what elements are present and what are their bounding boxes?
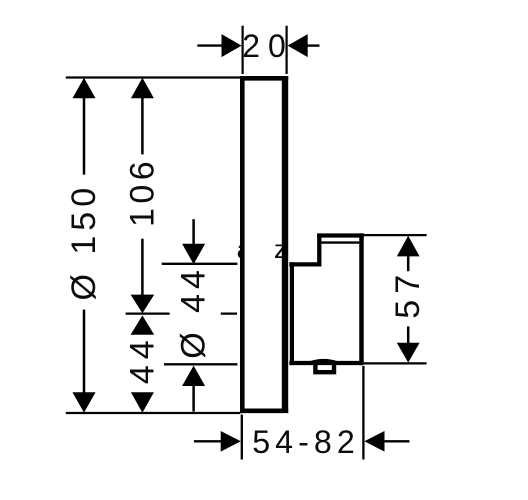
valve body top edge — [289, 262, 321, 266]
body top extension line (left of plate) — [162, 263, 238, 265]
dim 57 bottom extension line — [364, 362, 427, 364]
svg-text:20: 20 — [242, 28, 294, 64]
dim 150 label — [65, 183, 103, 301]
dim 57 line lower segment — [407, 326, 410, 343]
front plate top edge — [240, 76, 288, 81]
dim 54-82 left extension line — [241, 415, 243, 460]
dim O44 top tail — [192, 219, 195, 246]
dim O44 bottom tail — [192, 385, 195, 412]
dim 20 right arrow — [288, 34, 308, 57]
body bottom extension line (left of plate) — [164, 363, 237, 365]
dim 150 line upper segment — [83, 97, 86, 175]
dim 44 chain bottom arrow — [131, 392, 154, 412]
front plate bottom edge — [240, 408, 288, 413]
dim 57 line upper segment — [407, 255, 410, 271]
dim O44 label — [175, 265, 213, 359]
dim 57 top arrow — [397, 236, 420, 257]
cartridge cap left edge — [317, 233, 321, 266]
dim O44 bottom arrow (points up) — [182, 366, 205, 386]
dim 150 top arrow — [73, 78, 96, 98]
dim 106 line upper segment — [141, 97, 144, 154]
valve body left edge — [290, 262, 294, 365]
cartridge cap top edge — [317, 233, 363, 237]
dim 20 right extension line — [286, 26, 288, 74]
dim 54-82 left arrow — [194, 440, 223, 442]
svg-text:Ø 44: Ø 44 — [175, 265, 213, 359]
dim 44 chain top arrow (bowtie lower) — [131, 315, 155, 334]
handle center extension line segments — [126, 312, 170, 314]
valve body bottom edge — [289, 361, 363, 365]
svg-text:Ø 150: Ø 150 — [65, 183, 103, 301]
dim 54-82 right extension line — [362, 366, 364, 460]
front plate right edge — [282, 76, 288, 413]
bottom extension line (plate bottom, left) — [66, 412, 241, 414]
dim 20 left arrow — [197, 44, 224, 46]
dim 57 top extension line — [364, 234, 427, 236]
dim 150 bottom arrow — [73, 392, 96, 412]
svg-text:54-82: 54-82 — [252, 424, 360, 460]
cartridge cap inner line — [322, 241, 360, 243]
dim 150 line lower segment — [83, 310, 86, 393]
dim 106 top arrow — [131, 78, 154, 98]
svg-text:44: 44 — [123, 334, 161, 384]
dim 20 left extension line — [242, 26, 244, 74]
dim 106 line lower segment — [141, 239, 144, 296]
svg-text:57: 57 — [389, 269, 427, 319]
valve body right edge — [359, 233, 364, 365]
svg-text:106: 106 — [123, 157, 161, 227]
dim 54-82 right arrow — [364, 431, 384, 452]
front plate left edge — [240, 76, 245, 413]
dim 44 chain label — [123, 334, 161, 384]
dim O44 top arrow (points down) — [182, 244, 205, 264]
dim 106 label — [123, 157, 161, 227]
top extension line (plate top, left) — [66, 76, 241, 78]
dim 106 bottom arrow (bowtie upper) — [131, 295, 155, 314]
dim 57 bottom arrow — [397, 343, 420, 363]
dim 57 label — [389, 269, 427, 319]
valve body bottom bump arc — [310, 360, 338, 362]
bottom tab — [315, 363, 334, 373]
